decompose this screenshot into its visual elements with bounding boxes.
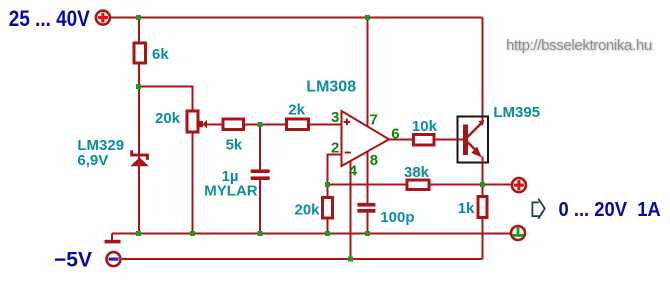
svg-text:MYLAR: MYLAR <box>204 182 257 199</box>
svg-text:7: 7 <box>370 112 378 129</box>
svg-text:5k: 5k <box>226 137 243 154</box>
svg-text:−5V: −5V <box>54 249 92 272</box>
svg-text:10k: 10k <box>412 118 438 135</box>
svg-text:6: 6 <box>391 126 399 143</box>
svg-text:20k: 20k <box>155 110 181 127</box>
svg-text:8: 8 <box>370 152 378 169</box>
svg-text:LM308: LM308 <box>306 79 356 96</box>
svg-text:100p: 100p <box>380 209 414 226</box>
svg-text:6,9V: 6,9V <box>77 152 108 169</box>
svg-text:25 ... 40V: 25 ... 40V <box>9 6 90 31</box>
svg-text:LM395: LM395 <box>493 104 540 121</box>
svg-text:38k: 38k <box>404 164 430 181</box>
svg-text:20k: 20k <box>295 201 321 218</box>
svg-text:6k: 6k <box>152 46 169 63</box>
svg-text:3: 3 <box>331 109 339 126</box>
svg-text:0 ... 20V 1A: 0 ... 20V 1A <box>559 199 661 221</box>
svg-text:1k: 1k <box>458 200 475 217</box>
svg-text:2k: 2k <box>288 102 305 119</box>
svg-text:2: 2 <box>331 140 339 157</box>
svg-text:4: 4 <box>349 163 358 180</box>
